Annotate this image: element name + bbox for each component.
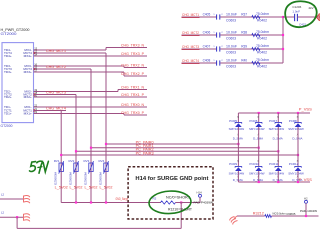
chassis ground 1 — [24, 196, 30, 204]
net label CHG_TRX0_P — [121, 110, 144, 115]
svg-text:CHG_MCT1: CHG_MCT1 — [182, 12, 199, 17]
svg-text:C0603: C0603 — [226, 19, 236, 23]
wire MCT bus vertical — [282, 17, 284, 63]
svg-text:SMY1064W: SMY1064W — [269, 127, 285, 131]
net label (left edge, lower) — [1, 211, 5, 215]
wire CHG_TRX2_N — [34, 66, 148, 68]
wire diode column x298 (bottom) — [297, 171, 299, 182]
wire CHG_MCT2 vertical drop to varistor — [90, 69, 92, 163]
varistor RV3 — [84, 159, 94, 174]
junction PC_PAIR2 right — [277, 150, 279, 152]
pad H2 — [304, 196, 308, 216]
wire surge bus into box — [160, 202, 162, 204]
varistor RV2 — [69, 159, 79, 174]
net label CHG_MCT3 — [182, 44, 200, 50]
off-page connector (cut at edge) — [316, 13, 319, 21]
net label GND_Surge — [116, 197, 129, 201]
wire P_VSS top bus — [238, 112, 310, 114]
wire diode column x278.3 (middle) — [277, 127, 279, 166]
pin TCT2 / MCT2 — [4, 91, 38, 97]
svg-text:SMY1064W: SMY1064W — [249, 127, 265, 131]
net label PC_PAIR0 — [136, 140, 154, 144]
green ellipse around C421 — [285, 1, 317, 27]
wire CHG_MCT4 center tap — [34, 110, 67, 112]
diode PCR12 SMY1064W (up) — [288, 161, 304, 182]
pin TD2- / MX2- — [4, 88, 38, 94]
wire diode column x238.4 (middle) — [237, 127, 239, 166]
wire RV1 bottom lead — [60, 172, 62, 203]
capacitor C421 C1206 1.0nF 2kV — [292, 5, 313, 26]
svg-text:L_5V02: L_5V02 — [85, 186, 98, 190]
junction surge bus x91 — [90, 201, 92, 203]
diode PCR8 SMY1064W (up) — [288, 117, 304, 140]
svg-text:RV1: RV1 — [54, 159, 60, 163]
svg-text:MX2+: MX2+ — [24, 95, 32, 99]
wire resistor to pad H14 — [176, 202, 201, 204]
svg-text:C0603: C0603 — [226, 37, 236, 41]
wire CHG_TRX3_N — [34, 48, 148, 51]
svg-text:D_SMA: D_SMA — [233, 136, 243, 140]
svg-text:C406: C406 — [203, 30, 211, 34]
wire P_VSS bottom bus — [238, 181, 310, 183]
svg-text:C0603: C0603 — [226, 65, 236, 69]
net label CHG_TRX3_P — [121, 51, 144, 56]
svg-text:R40: R40 — [241, 58, 247, 62]
wire to chassis ground 2 — [0, 216, 24, 218]
net label CHG_TRX3_N — [121, 43, 144, 48]
svg-text:GND_Surge: GND_Surge — [116, 197, 129, 201]
svg-text:SMY1064W: SMY1064W — [229, 171, 245, 175]
wire row1 to C421 — [283, 16, 294, 18]
pin TCT1 / MCT1 — [4, 107, 38, 113]
svg-text:75.0ohm: 75.0ohm — [256, 12, 269, 16]
wire CHG_MCT1 center tap — [34, 52, 107, 54]
net label R3212 — [253, 212, 264, 216]
wire CHG_MCT4 row — [182, 62, 284, 64]
junction PC_PAIR1 left — [90, 147, 92, 149]
svg-text:RV4: RV4 — [99, 159, 105, 163]
label H_PWR_GT2000 — [1, 28, 30, 32]
svg-text:CHG_MCT2: CHG_MCT2 — [46, 64, 66, 69]
junction PC_PAIR3 left — [60, 154, 62, 156]
svg-text:MX3+: MX3+ — [24, 70, 32, 74]
wire RV2 bottom lead — [75, 172, 77, 203]
pin TD4+ / MX4+ — [4, 52, 38, 58]
svg-text:R39: R39 — [241, 44, 247, 48]
junction PC_PAIR3 right — [297, 154, 299, 156]
svg-text:CHG_MCT3: CHG_MCT3 — [182, 44, 199, 49]
net label L_5V02 on RV2 lead — [70, 186, 83, 190]
wire R3212 to right edge — [272, 215, 319, 217]
diode PCR10 SMY1064W (up) — [249, 161, 265, 182]
svg-text:L_5V02: L_5V02 — [70, 186, 83, 190]
junction MCT bus row3 — [282, 48, 284, 50]
svg-text:75.0ohm: 75.0ohm — [256, 30, 269, 34]
net label L_5V02 on RV3 lead — [85, 186, 98, 190]
junction bottom bus x298 — [297, 181, 299, 183]
capacitor C408 10.0nF C0603 — [203, 58, 237, 68]
label GT2000 (blue) — [1, 32, 17, 36]
varistor RV3 part number (rotated) — [83, 172, 87, 185]
svg-text:R38: R38 — [241, 30, 247, 34]
svg-text:CHG_MCT4: CHG_MCT4 — [46, 106, 67, 111]
svg-text:75.0ohm: 75.0ohm — [256, 44, 269, 48]
svg-text:TD4+: TD4+ — [4, 54, 12, 58]
title H14 for SURGE GND point — [135, 176, 208, 182]
svg-text:R0402: R0402 — [257, 19, 267, 23]
svg-text:R0402: R0402 — [257, 65, 267, 69]
junction pad H2 — [305, 215, 307, 217]
svg-text:2kV: 2kV — [309, 6, 314, 10]
net label L_5V02 on RV4 lead — [100, 186, 113, 190]
wire to chassis ground 1 — [0, 198, 24, 200]
svg-text:R37: R37 — [241, 12, 247, 16]
diode PCR7 SMY1064W (up) — [269, 117, 285, 140]
varistor RV2 part number (rotated) — [68, 172, 72, 185]
wire riser left — [16, 217, 18, 228]
svg-text:NC/0.0ohm: NC/0.0ohm — [273, 212, 286, 216]
svg-text:PCR11: PCR11 — [269, 162, 279, 166]
net label P_VSS (bottom) — [299, 178, 313, 182]
svg-text:GT2000: GT2000 — [1, 32, 17, 36]
varistor RV4 — [99, 159, 109, 174]
wire CHG_TRX0_P — [34, 114, 148, 116]
svg-text:D_SMA: D_SMA — [292, 136, 302, 140]
svg-text:D_SMA: D_SMA — [253, 136, 263, 140]
capacitor C405 10.0nF C0603 — [203, 12, 237, 22]
wire diode column x298 (middle) — [297, 127, 299, 166]
transformer T1 GT2000 box — [2, 43, 34, 123]
wire diode column x258.7 (bottom) — [258, 171, 260, 182]
svg-text:CHG_TRX3_N: CHG_TRX3_N — [121, 43, 144, 48]
net label CHG_TRX1_P — [121, 92, 144, 97]
junction surge bus x181.2 — [180, 201, 182, 203]
pin TCT3 / MCT3 — [4, 65, 38, 71]
annotation 57V (green handwriting) — [30, 161, 49, 173]
svg-text:GT2000: GT2000 — [1, 124, 13, 128]
svg-text:C1206: C1206 — [292, 5, 301, 9]
svg-text:PAD-1004W: PAD-1004W — [300, 209, 317, 213]
wire diode column x258.7 (top) — [258, 113, 260, 122]
net label CHG_TRX1_N — [121, 85, 144, 90]
svg-text:C405: C405 — [203, 12, 211, 16]
svg-text:SMY1064W: SMY1064W — [229, 127, 245, 131]
svg-text:CHG_TRX2_N: CHG_TRX2_N — [121, 63, 144, 68]
wire bottom bus — [17, 227, 181, 229]
svg-text:PCR9: PCR9 — [229, 162, 237, 166]
junction MCT bus row1 — [282, 16, 284, 18]
diode PCR6 SMY1064W (up) — [249, 117, 265, 140]
svg-text:GZ0603M: GZ0603M — [83, 172, 87, 185]
varistor RV4 part number (rotated) — [98, 172, 102, 185]
svg-text:R0402: R0402 — [257, 37, 267, 41]
junction top bus x298 — [297, 112, 299, 114]
label GT2000 footprint below box — [1, 124, 13, 128]
junction PC_PAIR1 right — [258, 147, 260, 149]
svg-text:CHG_MCT3: CHG_MCT3 — [46, 90, 66, 95]
wire CHG_MCT4 vertical drop to varistor — [60, 111, 62, 164]
net label CHG_MCT3 (inline) — [46, 90, 66, 95]
svg-text:SMY1064W: SMY1064W — [269, 171, 285, 175]
svg-text:R0402: R0402 — [257, 51, 267, 55]
resistor R2 NC/0=SHORT — [153, 195, 193, 211]
net label PC_PAIR3 — [136, 151, 154, 155]
svg-text:C0603: C0603 — [226, 51, 236, 55]
wire C421 to edge — [297, 16, 320, 18]
svg-text:TD2+: TD2+ — [4, 95, 12, 99]
diode PCR9 SMY1064W (up) — [229, 161, 245, 182]
pin TD3- / MX3- — [4, 62, 38, 68]
net label CHG_MCT4 (inline) — [46, 106, 67, 111]
pin TCT4 / MCT4 — [4, 49, 38, 55]
net label CHG_MCT2 — [182, 30, 200, 36]
wire PC_PAIR2 — [76, 150, 278, 152]
junction surge bus x106 — [105, 201, 107, 203]
svg-text:CHG_TRX1_N: CHG_TRX1_N — [121, 85, 144, 90]
svg-text:L2: L2 — [1, 192, 5, 196]
junction PC_PAIR0 right — [237, 143, 239, 145]
wire ground to R3212 — [237, 215, 265, 217]
net label PC_PAIR2 — [136, 148, 154, 152]
svg-text:75.0ohm: 75.0ohm — [256, 58, 269, 62]
svg-text:MX1+: MX1+ — [24, 112, 32, 116]
chassis ground 3 — [230, 216, 238, 225]
svg-text:H2: H2 — [304, 196, 308, 200]
svg-text:TD3+: TD3+ — [4, 70, 12, 74]
svg-text:P_VSS: P_VSS — [299, 178, 313, 182]
svg-text:10.0nF: 10.0nF — [226, 12, 237, 16]
net label CHG_MCT1 — [182, 12, 200, 18]
chassis ground 2 — [24, 214, 30, 222]
wire riser to surge resistor — [180, 203, 182, 229]
wire diode column x258.7 (middle) — [258, 127, 260, 166]
wire diode column x278.3 (top) — [277, 113, 279, 122]
wire CHG_TRX3_P — [34, 55, 148, 57]
junction PC_PAIR0 left — [105, 143, 107, 145]
label PAD-P4039W — [194, 201, 214, 205]
svg-text:L_5V02: L_5V02 — [100, 186, 113, 190]
svg-text:CHG_MCT1: CHG_MCT1 — [46, 48, 66, 53]
svg-text:C408: C408 — [203, 58, 211, 62]
wire PC_PAIR1 — [91, 147, 259, 149]
svg-text:CHG_MCT4: CHG_MCT4 — [182, 58, 200, 63]
svg-text:C407: C407 — [203, 44, 211, 48]
resistor R37 75.0ohm R0402 — [241, 12, 269, 22]
svg-text:1.0nF: 1.0nF — [292, 10, 300, 14]
pin TD2+ / MX2+ — [4, 93, 38, 99]
net label CHG_TRX2_N — [121, 63, 144, 68]
diode PCR11 SMY1064W (up) — [269, 161, 285, 182]
svg-text:10.0nF: 10.0nF — [226, 58, 237, 62]
varistor RV1 — [54, 159, 64, 174]
wire PC_PAIR0 — [106, 143, 238, 145]
junction bottom bus x258.7 — [258, 181, 260, 183]
svg-text:H14 for SURGE GND point: H14 for SURGE GND point — [135, 176, 208, 182]
net label CHG_TRX0_N — [121, 102, 144, 107]
net label L_5V02 on RV1 lead — [55, 186, 68, 190]
capacitor C407 10.0nF C0603 — [203, 44, 237, 54]
wire diode column x238.4 (top) — [237, 113, 239, 122]
svg-text:R0805: R0805 — [287, 212, 296, 216]
pad H14 — [197, 190, 203, 202]
wire diode column x298 (top) — [297, 113, 299, 122]
wire PC_PAIR3 — [61, 154, 298, 156]
svg-text:RV2: RV2 — [69, 159, 75, 163]
svg-text:CHG_TRX1_P: CHG_TRX1_P — [121, 92, 144, 97]
capacitor C406 10.0nF C0603 — [203, 30, 237, 40]
svg-text:PAD-P4039W: PAD-P4039W — [194, 201, 214, 205]
svg-text:TD1+: TD1+ — [4, 112, 12, 116]
wire CHG_MCT1 row — [182, 16, 284, 18]
wire CHG_TRX1_P — [34, 96, 148, 98]
svg-text:H14: H14 — [197, 190, 203, 194]
svg-text:GZ0603M: GZ0603M — [54, 172, 58, 185]
svg-text:D_SMA: D_SMA — [273, 136, 283, 140]
svg-text:R3212: R3212 — [253, 212, 264, 216]
svg-text:MX4+: MX4+ — [24, 54, 32, 58]
junction top bus x258.7 — [258, 112, 260, 114]
wire CHG_TRX2_P — [34, 72, 148, 76]
junction bottom bus x278.3 — [277, 181, 279, 183]
wire CHG_MCT2 row — [182, 34, 284, 36]
green ellipse around R2 — [148, 190, 191, 215]
resistor R39 75.0ohm R0402 — [241, 44, 269, 54]
svg-text:SMY1064W: SMY1064W — [288, 127, 304, 131]
junction at ground wire — [16, 216, 18, 218]
pin TD1+ / MX1+ — [4, 110, 38, 116]
diode PCR5 SMY1064W (up) — [229, 117, 245, 140]
svg-text:GZ0603M: GZ0603M — [98, 172, 102, 185]
resistor R40 75.0ohm R0402 — [241, 58, 269, 68]
svg-text:PCR12: PCR12 — [289, 162, 299, 166]
varistor RV1 part number (rotated) — [54, 172, 58, 185]
wire diode column x238.4 (bottom) — [237, 171, 239, 182]
net label CHG_TRX2_P — [121, 71, 144, 76]
resistor R3212 NC/0.0ohm R0805 — [265, 212, 296, 218]
wire RV4 bottom lead — [105, 172, 107, 203]
pin TD4- / MX4- — [4, 46, 38, 52]
junction PC_PAIR2 left — [75, 150, 77, 152]
junction MCT bus row2 — [282, 34, 284, 36]
svg-text:PCR10: PCR10 — [249, 162, 259, 166]
junction top bus x278.3 — [277, 112, 279, 114]
svg-text:SMY1064W: SMY1064W — [249, 171, 265, 175]
svg-text:NC/0=SHORT: NC/0=SHORT — [166, 195, 190, 199]
svg-text:CHG_TRX0_N: CHG_TRX0_N — [121, 102, 144, 107]
resistor R38 75.0ohm R0402 — [241, 30, 269, 40]
svg-text:P_VSS: P_VSS — [299, 108, 313, 112]
net label CHG_MCT1 (inline) — [46, 48, 66, 53]
svg-text:CHG_TRX3_P: CHG_TRX3_P — [121, 51, 144, 56]
svg-text:CHG_TRX0_P: CHG_TRX0_P — [121, 110, 144, 115]
svg-text:L_5V02: L_5V02 — [55, 186, 68, 190]
svg-text:GZ0603M: GZ0603M — [68, 172, 72, 185]
pin TD1- / MX1- — [4, 103, 38, 109]
wire RV3 bottom lead — [90, 172, 92, 203]
net label CHG_MCT4 — [182, 58, 200, 64]
label PAD-1004W — [300, 209, 317, 213]
wire CHG_TRX0_N — [34, 106, 148, 108]
net label CHG_MCT2 (inline) — [46, 64, 66, 69]
wire CHG_MCT3 vertical drop to varistor — [75, 95, 77, 164]
net label P_VSS (top) — [299, 108, 313, 112]
svg-text:RV3: RV3 — [84, 159, 90, 163]
dashed box H14 SURGE GND — [128, 167, 213, 219]
pin TD3+ / MX3+ — [4, 68, 38, 74]
wire CHG_MCT3 row — [182, 48, 284, 50]
wire CHG_MCT2 center tap — [34, 68, 92, 70]
svg-text:10.0nF: 10.0nF — [226, 30, 237, 34]
net label (left edge, upper) — [1, 192, 5, 196]
svg-text:SMY1064W: SMY1064W — [288, 171, 304, 175]
wire CHG_MCT1 vertical drop to varistor — [105, 53, 107, 163]
svg-text:CHG_TRX2_P: CHG_TRX2_P — [121, 71, 144, 76]
svg-text:PC_PAIR3: PC_PAIR3 — [136, 151, 154, 155]
svg-text:CHG_MCT2: CHG_MCT2 — [182, 30, 199, 35]
wire CHG_MCT3 center tap — [34, 94, 77, 96]
junction surge bus x76 — [75, 201, 77, 203]
wire CHG_TRX1_N — [34, 90, 148, 92]
wire diode column x278.3 (bottom) — [277, 171, 279, 182]
svg-text:10.0nF: 10.0nF — [226, 44, 237, 48]
svg-text:L2: L2 — [1, 211, 5, 215]
net label PC_PAIR1 — [136, 144, 154, 148]
wire surge gnd bus — [61, 202, 160, 204]
